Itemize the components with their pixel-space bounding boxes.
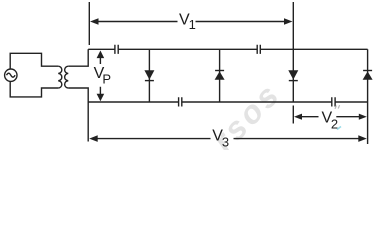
svg-text:1: 1 [189,17,196,32]
svg-text:P: P [102,72,111,87]
svg-text:3: 3 [222,135,229,150]
